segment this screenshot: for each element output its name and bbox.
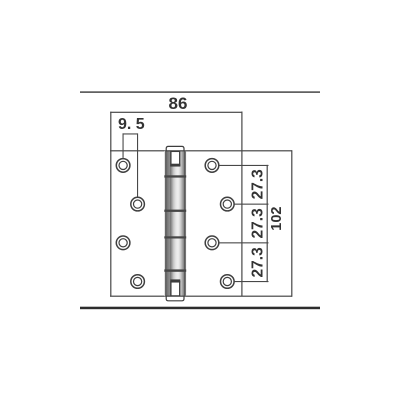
svg-text:27.3: 27.3 <box>249 247 266 278</box>
bottom border line <box>80 307 320 310</box>
pin window top <box>171 151 180 166</box>
barrel body <box>164 151 186 296</box>
screw hole R4 <box>221 275 235 289</box>
svg-text:102: 102 <box>269 206 285 230</box>
extension line row3 <box>219 242 269 243</box>
extension to hole row1 <box>123 133 124 158</box>
knuckle joint 1 <box>164 175 186 177</box>
dimension line 102 <box>291 150 292 297</box>
svg-text:27.3: 27.3 <box>249 208 266 239</box>
dimension line 27.3 column <box>267 165 268 282</box>
screw hole L3 <box>116 236 130 250</box>
screw hole R3 <box>205 236 219 250</box>
svg-text:9. 5: 9. 5 <box>118 116 145 133</box>
extension line row4 <box>234 281 268 282</box>
screw hole R2 <box>221 197 235 211</box>
dimension bracket 9.5 <box>123 133 138 134</box>
screw hole R1 <box>205 159 219 173</box>
barrel bottom cap <box>166 296 184 301</box>
extension line row1 <box>219 165 269 166</box>
leaf bottom edge <box>110 296 292 297</box>
extension to hole row2 <box>137 133 138 197</box>
svg-text:86: 86 <box>169 94 188 113</box>
knuckle joint 3 <box>164 236 186 238</box>
screw hole L2 <box>131 197 145 211</box>
screw hole L4 <box>131 275 145 289</box>
leaf top edge <box>110 150 292 151</box>
right extension line / right leaf edge <box>241 112 242 297</box>
pin bar top <box>170 164 180 167</box>
dimension line 86 <box>110 112 242 113</box>
left extension line / left leaf edge <box>110 112 111 297</box>
top border line <box>80 91 320 92</box>
screw hole L1 <box>116 159 130 173</box>
extension line row2 <box>234 204 268 205</box>
pin window bottom <box>171 282 180 296</box>
svg-text:27.3: 27.3 <box>249 169 266 200</box>
barrel right edge <box>184 151 185 296</box>
pin bar bottom <box>170 279 180 282</box>
knuckle joint 4 <box>164 269 186 271</box>
barrel top cap <box>166 146 184 150</box>
barrel left edge <box>165 151 166 296</box>
knuckle joint 2 <box>164 210 186 212</box>
